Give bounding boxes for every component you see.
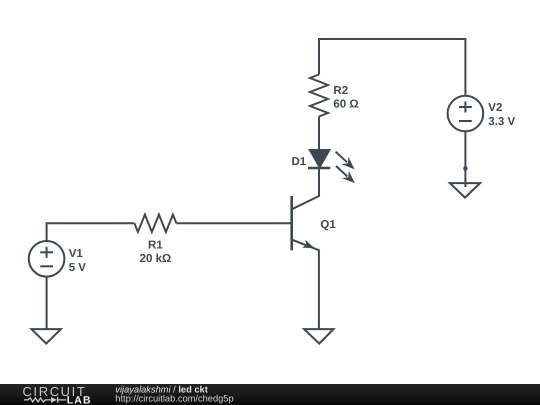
voltage source V1 xyxy=(29,241,65,277)
svg-text:3.3 V: 3.3 V xyxy=(488,116,515,128)
wire V1 bottom lead xyxy=(46,277,48,330)
ground under V1 xyxy=(32,329,61,344)
footer attribution text xyxy=(115,384,233,403)
CircuitLab logo xyxy=(23,384,92,405)
LED arrow 1 xyxy=(336,152,355,170)
svg-text:R2: R2 xyxy=(333,85,348,97)
wire V2 bottom lead xyxy=(464,131,466,187)
footer bar xyxy=(0,384,540,405)
svg-text:20 kΩ: 20 kΩ xyxy=(140,253,172,265)
resistor R2 xyxy=(310,75,328,117)
junction dot xyxy=(463,166,467,170)
transistor Q1 xyxy=(292,196,319,329)
svg-text:V2: V2 xyxy=(488,102,502,114)
svg-text:R1: R1 xyxy=(148,240,163,252)
svg-text:V1: V1 xyxy=(69,248,84,260)
svg-text:D1: D1 xyxy=(292,156,307,168)
svg-text:Q1: Q1 xyxy=(320,219,336,231)
wire top horizontal with corners to R2 and V2 xyxy=(319,39,465,96)
voltage source V2 xyxy=(448,96,484,132)
wire base from R1 to Q1 xyxy=(176,222,291,224)
wire R2 to D1 xyxy=(318,117,320,151)
svg-text:http://circuitlab.com/chedg5p: http://circuitlab.com/chedg5p xyxy=(115,394,233,404)
svg-text:60 Ω: 60 Ω xyxy=(333,99,358,111)
svg-text:LAB: LAB xyxy=(67,394,92,405)
wire V1 to R1 xyxy=(47,223,135,241)
ground under Q1 xyxy=(304,329,333,344)
diode D1 LED xyxy=(308,150,330,168)
svg-text:5 V: 5 V xyxy=(69,262,87,274)
resistor R1 xyxy=(134,215,176,232)
LED arrow 2 xyxy=(336,166,355,183)
wire D1 cathode to Q1 collector xyxy=(292,168,319,209)
ground under V2 xyxy=(450,183,480,198)
